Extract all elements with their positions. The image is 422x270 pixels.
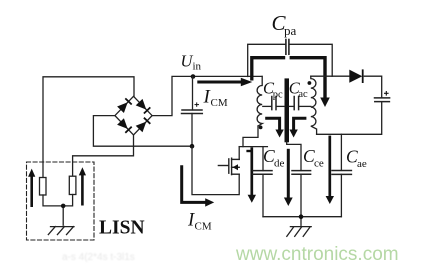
- capacitor Cde plates: [253, 171, 273, 175]
- bridge diode D4 (bottom-right edge): [136, 118, 151, 133]
- svg-text:CM: CM: [211, 97, 228, 109]
- capacitor C1 plates: [182, 110, 203, 114]
- capacitor C2 output plates: [375, 98, 390, 102]
- capacitor Cpc leads: [263, 105, 271, 107]
- node DC- junction: [190, 144, 195, 149]
- capacitor C1 polarity mark: [195, 102, 200, 106]
- wire bridge left vertex to DC- rail: [93, 116, 192, 147]
- capacitor C2 polarity mark: [384, 91, 389, 96]
- wire secondary top to diode: [311, 75, 349, 77]
- svg-text:pc: pc: [273, 90, 283, 101]
- transformer core bar: [285, 78, 290, 142]
- capacitor Cac plates: [294, 97, 298, 110]
- arrow core to earth (long down): [284, 149, 293, 206]
- svg-text:LISN: LISN: [99, 218, 145, 239]
- capacitor C1 input bulk: wires: [192, 77, 194, 110]
- resistor R2 (LISN right): [69, 176, 76, 194]
- capacitor Cae plates: [332, 171, 351, 175]
- resistor R1 (LISN left): [40, 178, 47, 196]
- node Uin junction: [191, 74, 196, 79]
- wire bridge bottom vertex to LISN right: [73, 135, 134, 176]
- node LISN common junction: [61, 204, 66, 209]
- capacitor Cpa plates: [286, 40, 289, 55]
- arrow LISN right current (up): [79, 167, 86, 205]
- bridge diode D1 (left-top edge): [117, 98, 132, 113]
- arrow drain to earth (down): [246, 147, 256, 203]
- wire earth ground stem: [300, 217, 302, 226]
- svg-text:ce: ce: [314, 158, 324, 170]
- svg-text:CM: CM: [195, 221, 212, 233]
- wire primary bottom stair: [243, 126, 258, 147]
- diode bridge outline: [115, 96, 152, 135]
- capacitor Cde wires: [262, 147, 264, 171]
- wire earth bottom rail: [263, 216, 341, 218]
- wire diode to output cap: [364, 76, 381, 98]
- capacitor Cac leads: [289, 105, 294, 107]
- arrow LISN left current (up): [28, 169, 35, 207]
- capacitor Cce plates: [292, 171, 311, 175]
- arrow through Cpc (down): [265, 118, 284, 137]
- node secondary polarity dot: [308, 81, 312, 85]
- wire top-left rail: [43, 77, 134, 178]
- wire bridge right vertex to Uin rail: [152, 76, 262, 115]
- diode D5 output rectifier: [349, 69, 362, 83]
- wire LISN ground stem: [62, 206, 64, 225]
- arrow ICM from Uin (thick right): [197, 78, 252, 87]
- wire output cap bottom loop: [317, 102, 382, 135]
- transformer T1 primary winding: [257, 76, 262, 126]
- capacitor Cae wires: [340, 134, 342, 170]
- svg-text:pa: pa: [284, 23, 297, 38]
- transistor Q1 MOSFET: [218, 158, 239, 174]
- wire MOSFET drain up: [238, 147, 240, 160]
- svg-text:ac: ac: [298, 89, 308, 100]
- transformer T1 secondary winding: [311, 76, 317, 134]
- arrow secondary side to earth (down): [326, 136, 334, 204]
- wire LISN bottom join: [43, 195, 73, 206]
- bridge diode D2 (top-right edge): [136, 99, 151, 114]
- svg-text:in: in: [193, 61, 202, 73]
- LISN dashed box: [27, 162, 95, 240]
- capacitor Cpc plates: [272, 97, 276, 110]
- arrow ICM return (bottom left): [182, 165, 215, 206]
- capacitor Cce wires: [287, 142, 301, 171]
- svg-text:a-s 4(2*4s t-3l1s: a-s 4(2*4s t-3l1s: [62, 252, 135, 263]
- svg-text:de: de: [274, 158, 285, 170]
- wire drain node horizontal: [239, 146, 267, 148]
- node earth rail junction: [299, 214, 304, 219]
- wire Cpa thin loop: [248, 44, 286, 76]
- svg-text:ae: ae: [357, 158, 367, 170]
- arrow through Cac (down): [289, 118, 306, 137]
- wire DC- down and right to MOSFET source: [192, 146, 239, 194]
- svg-text:www.cntronics.com: www.cntronics.com: [235, 244, 399, 265]
- ground symbol (earth): [287, 227, 311, 237]
- node primary polarity dot: [259, 126, 263, 130]
- bridge diode D3 (left-bottom edge): [117, 118, 132, 133]
- ground symbol (LISN): [48, 227, 74, 235]
- arrow Cpa thick path: [252, 58, 330, 107]
